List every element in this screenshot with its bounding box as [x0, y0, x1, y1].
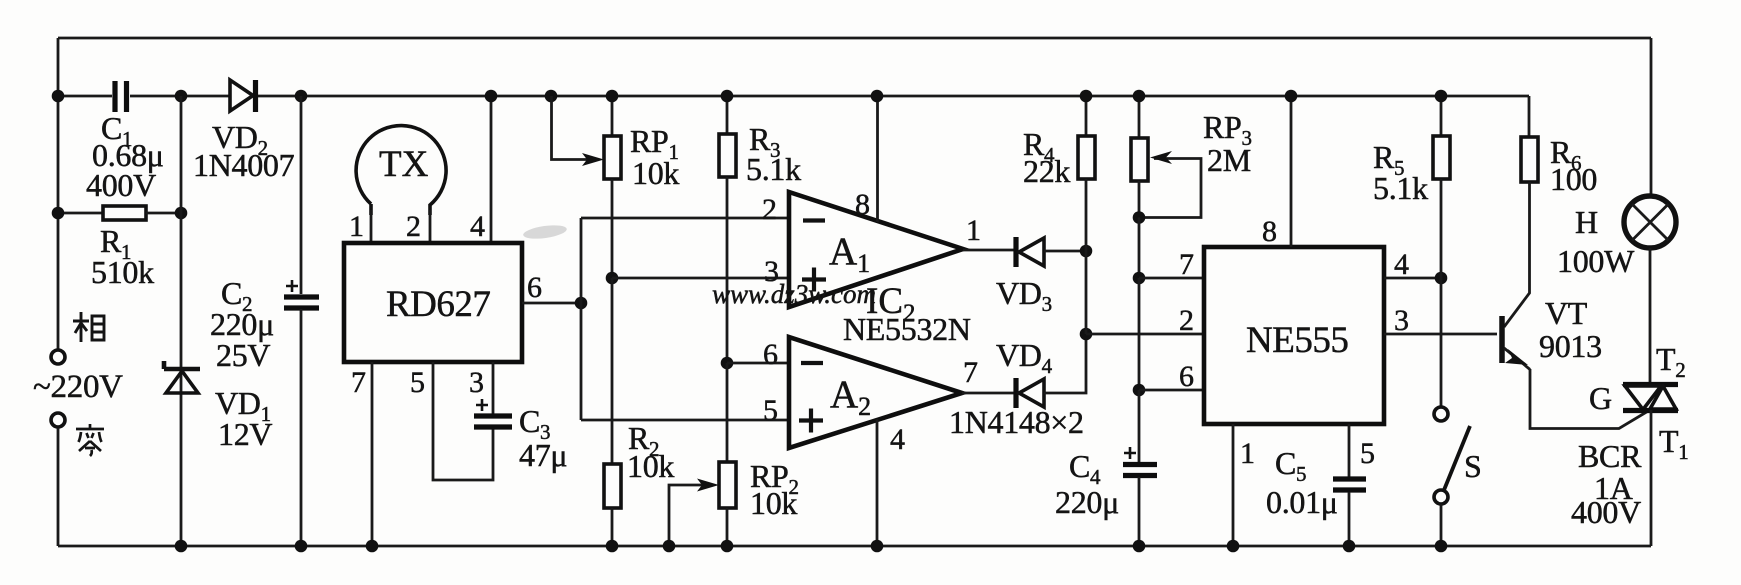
label: 零 (neutral)	[76, 424, 104, 456]
node: pin4 rail at (491,96)	[485, 90, 498, 103]
node: left border R1 at (58,213)	[52, 207, 65, 220]
node: C1-VD2 at (181,96)	[175, 90, 188, 103]
wire: junction down to R2	[611, 278, 614, 464]
svg-text:3: 3	[1394, 304, 1409, 337]
node: pin6 junction at (581,303)	[575, 297, 588, 310]
lamp H 100W	[1557, 196, 1676, 279]
wire: to NE555 pin 7	[1139, 277, 1204, 280]
svg-text:www.dz3w.com: www.dz3w.com	[712, 279, 876, 309]
wire: pin4 node down to switch	[1440, 278, 1443, 407]
label: 1N4148x2	[949, 404, 1084, 440]
node: pin4/R5 junction at (1441,278)	[1435, 272, 1448, 285]
pin 5 label RD627	[410, 366, 425, 399]
wire: RP3 line down to pin7 node	[1138, 218, 1141, 279]
capacitor C5 0.01u	[1266, 445, 1366, 520]
svg-text:10k: 10k	[632, 155, 679, 191]
wire: switch to bottom rail	[1440, 504, 1443, 546]
potentiometer RP3 2M	[1131, 96, 1252, 181]
wire: +V rail segment VD2 to R6 corner	[258, 95, 1529, 98]
pin 7 label A2 output	[963, 356, 978, 389]
wire: NE555 pin 4 to R5	[1384, 277, 1441, 280]
svg-text:S: S	[1464, 448, 1482, 484]
svg-text:510k: 510k	[91, 254, 154, 290]
pin 6 label NE555	[1179, 360, 1194, 393]
node: pin6 junction at (1139,390)	[1133, 384, 1146, 397]
node: RP3 rail at (1139,96)	[1133, 90, 1146, 103]
wire: A2 output to VD4	[962, 392, 1015, 395]
wire: pin 5 down and right to C3 negative	[433, 362, 493, 480]
pin 6 label A2	[763, 338, 778, 371]
pin 3 label A1	[764, 255, 779, 288]
node: RP3 wiper tie at (1139,214)	[1133, 211, 1146, 224]
diode VD4	[996, 337, 1053, 408]
node: pin7 junction at (1139,278)	[1133, 272, 1146, 285]
svg-text:47μ: 47μ	[519, 437, 567, 473]
op-amp A1	[789, 192, 963, 307]
resistor R4 22k	[1023, 96, 1095, 189]
svg-text:NE5532N: NE5532N	[843, 311, 971, 347]
wire: R3 bottom to A2 pin6 junction	[726, 177, 729, 363]
svg-text:10k: 10k	[627, 448, 674, 484]
svg-text:7: 7	[351, 366, 366, 399]
wire: RP3 bottom lead	[1138, 181, 1141, 218]
wire: pin 7 to bottom rail	[371, 362, 374, 546]
pin 1 label NE555	[1240, 437, 1255, 470]
pin 3 label RD627	[469, 366, 484, 399]
svg-text:100W: 100W	[1557, 243, 1635, 279]
node: pin8 rail at (1291,96)	[1285, 90, 1298, 103]
op-amp A2	[789, 337, 962, 448]
svg-text:1N4148×2: 1N4148×2	[949, 404, 1084, 440]
wire: pin 6 output of RD627	[522, 302, 581, 305]
node: pin4 bottom rail at (877,546)	[871, 540, 884, 553]
svg-text:NE555: NE555	[1246, 320, 1348, 361]
svg-text:220μ: 220μ	[1055, 484, 1119, 520]
svg-text:2: 2	[406, 210, 421, 243]
pin 2 label A1	[762, 193, 777, 226]
IC RD627	[344, 243, 522, 362]
wire: to NE555 pin 6	[1139, 389, 1204, 392]
node: R5 rail at (1441,96)	[1435, 90, 1448, 103]
label: IC2 NE5532N	[843, 281, 971, 347]
resistor R1 510k	[91, 206, 154, 290]
label: ~220V source	[33, 369, 123, 405]
wire: pin 3 to C3 positive	[492, 362, 495, 414]
pin 4 label NE555	[1394, 248, 1409, 281]
node: switch bottom rail at (1441,546)	[1435, 540, 1448, 553]
wire: left border upper segment	[57, 38, 60, 349]
wire: R2 to bottom rail	[611, 508, 614, 546]
capacitor C2 220u 25V	[210, 275, 319, 373]
wire: RP2 wiper from bottom rail with arrow	[669, 479, 719, 547]
wire: NE555 pin 1 to bottom rail	[1232, 424, 1235, 546]
watermark www.dz3w.com	[712, 279, 876, 309]
node: C2 bottom rail at (301,546)	[295, 540, 308, 553]
node: pin8 rail at (877,96)	[871, 90, 884, 103]
wire: A2 pin 4 to bottom rail	[876, 419, 879, 546]
svg-text:1: 1	[966, 214, 981, 247]
svg-text:5: 5	[763, 394, 778, 427]
wire: triac T1 to bottom rail	[1650, 410, 1653, 546]
capacitor C4 220u	[1055, 447, 1157, 520]
pin 5 label A2	[763, 394, 778, 427]
resistor R3 5.1k	[719, 96, 801, 187]
svg-text:5: 5	[410, 366, 425, 399]
capacitor C1	[86, 81, 164, 203]
potentiometer RP1 10k	[604, 96, 679, 191]
wire: NE555 pin 3 to VT base	[1384, 333, 1497, 336]
node: VD1 bottom rail at (181,546)	[175, 540, 188, 553]
wire: lamp feed from top border	[1650, 38, 1653, 196]
switch S	[1434, 407, 1482, 504]
wire: junction down to RP2	[726, 363, 729, 462]
wire: lamp to triac T2	[1649, 248, 1652, 383]
svg-text:BCR: BCR	[1578, 438, 1642, 474]
node: rail-C1 left at (58,96)	[52, 90, 65, 103]
node: VD4 summing at (1086,334)	[1080, 328, 1093, 341]
node: junction RP1/R2/pin3 at (612,278)	[606, 272, 619, 285]
svg-text:9013: 9013	[1539, 328, 1602, 364]
node: pin1 bottom rail at (1233,546)	[1227, 540, 1240, 553]
svg-text:7: 7	[1179, 248, 1194, 281]
node: C4 bottom rail at (1139,546)	[1133, 540, 1146, 553]
resistor R6 100	[1521, 96, 1597, 197]
pin 5 label NE555	[1360, 437, 1375, 470]
wire: to A2 inverting input pin 6	[727, 362, 789, 365]
svg-text:4: 4	[890, 423, 905, 456]
wire: R1 right lead	[146, 212, 181, 215]
pin 1 label RD627	[349, 210, 364, 243]
node: pin7 bottom rail at (372,546)	[366, 540, 379, 553]
svg-text:4: 4	[1394, 248, 1409, 281]
node: C5 bottom rail at (1349,546)	[1343, 540, 1356, 553]
pin 8 label A1	[855, 188, 870, 221]
pin 8 label NE555	[1262, 215, 1277, 248]
node: R3 rail at (727,96)	[721, 90, 734, 103]
pin 6 label RD627	[527, 271, 542, 304]
resistor R2 10k	[604, 420, 674, 508]
svg-text:2: 2	[1179, 304, 1194, 337]
svg-text:25V: 25V	[216, 337, 270, 373]
pin 7 label RD627	[351, 366, 366, 399]
node: R1 to VD1 branch at (181,213)	[175, 207, 188, 220]
node: RP2 wiper rail at (669,546)	[663, 540, 676, 553]
wire: C4 to bottom rail	[1138, 477, 1141, 546]
wire: RP2 to bottom rail	[726, 508, 729, 546]
wire: +V rail segment left	[58, 95, 112, 98]
svg-text:G: G	[1589, 380, 1612, 416]
wire: summing node to NE555 pin 2	[1086, 333, 1204, 336]
pin 1 label A1 output	[966, 214, 981, 247]
wire: RP1 bottom to A1 pin3 junction	[611, 179, 614, 278]
resistor R5 5.1k	[1373, 96, 1450, 206]
wire: A1 pin 8 to +V rail	[876, 96, 879, 222]
svg-text:2: 2	[762, 193, 777, 226]
wire: TX leg pin 1	[370, 210, 373, 243]
IC NE555	[1204, 247, 1384, 424]
wire: R1 left lead	[58, 212, 103, 215]
wire: R4 bottom through summing nodes	[1085, 179, 1088, 334]
smudge artifact	[522, 223, 567, 241]
wire: bottom rail	[58, 545, 1651, 548]
wire: C2 bottom lead	[300, 309, 303, 546]
wire: to A1 non-inverting input pin 3	[612, 277, 790, 280]
pin 7 label NE555	[1179, 248, 1194, 281]
terminal: phase input circle	[51, 350, 65, 364]
microphone TX	[356, 126, 446, 215]
wire: A1 output to VD3	[963, 249, 1015, 252]
node: R4 rail at (1086,96)	[1080, 90, 1093, 103]
svg-text:1N4007: 1N4007	[193, 147, 295, 183]
node: RP2 bottom rail at (727,546)	[721, 540, 734, 553]
pin 3 label NE555	[1394, 304, 1409, 337]
svg-text:6: 6	[763, 338, 778, 371]
wire: RP3 wiper loop with arrow	[1139, 151, 1201, 218]
wire: C2 top lead	[300, 96, 303, 294]
svg-text:12V: 12V	[218, 416, 272, 452]
potentiometer RP2 10k	[719, 458, 799, 521]
wire: NE555 pin 5 to C5	[1348, 424, 1351, 477]
pin 4 label A2	[890, 423, 905, 456]
wire: pin 4 to +V rail	[490, 96, 493, 243]
svg-text:10k: 10k	[750, 485, 797, 521]
svg-text:22k: 22k	[1023, 153, 1070, 189]
node: VD3 summing at (1086,251)	[1080, 245, 1093, 258]
svg-text:2M: 2M	[1207, 142, 1251, 178]
wire: riser from pin6 junction to A1 pin2 and A2 pin5	[580, 218, 583, 420]
svg-text:0.01μ: 0.01μ	[1266, 484, 1338, 520]
svg-text:VT: VT	[1545, 295, 1588, 331]
wire: down to C4	[1138, 390, 1141, 462]
wire: to A2 non-inverting input pin 5	[581, 419, 789, 422]
wire: branch x=181 from rail to zener	[180, 96, 183, 546]
svg-text:400V: 400V	[1571, 494, 1641, 530]
svg-text:1: 1	[1240, 437, 1255, 470]
label: 相 (phase)	[73, 312, 104, 342]
svg-text:5.1k: 5.1k	[746, 151, 801, 187]
svg-text:8: 8	[855, 188, 870, 221]
svg-text:5.1k: 5.1k	[1373, 170, 1428, 206]
wire: VD3 to summing node	[1044, 250, 1086, 253]
terminal: neutral input circle	[51, 413, 65, 427]
diode VD3	[996, 237, 1052, 316]
wire: to A1 inverting input pin 2	[581, 217, 790, 220]
wire: VT emitter down and right to triac gate	[1530, 369, 1649, 429]
svg-text:400V: 400V	[86, 167, 156, 203]
svg-text:8: 8	[1262, 215, 1277, 248]
wire: down to pin6 node	[1138, 278, 1141, 390]
wire: RP1 wiper from rail with arrow	[552, 96, 605, 166]
svg-text:7: 7	[963, 356, 978, 389]
node: junction R3/RP2/pin6 at (727,363)	[721, 357, 734, 370]
zener diode VD1 12V	[164, 361, 272, 452]
svg-text:TX: TX	[379, 144, 429, 185]
svg-text:RD627: RD627	[386, 284, 490, 325]
svg-text:1: 1	[349, 210, 364, 243]
node: R2 bottom rail at (612,546)	[606, 540, 619, 553]
wire: R5 bottom to pin4 node	[1440, 179, 1443, 278]
wire: top border rail	[58, 37, 1651, 40]
wire: NE555 pin 8 to +V rail	[1290, 96, 1293, 247]
pin 2 label RD627	[406, 210, 421, 243]
wire: C5 to bottom rail	[1348, 492, 1351, 546]
wire: TX leg pin 2	[429, 210, 432, 243]
node: RP1 rail at (612,96)	[606, 90, 619, 103]
transistor VT 9013	[1502, 295, 1602, 370]
node: RP1 wiper rail tap at (551,96)	[545, 90, 558, 103]
triac BCR 1A 400V	[1571, 341, 1688, 530]
pin 2 label NE555	[1179, 304, 1194, 337]
svg-text:4: 4	[470, 210, 485, 243]
svg-text:3: 3	[469, 366, 484, 399]
wire: R6 bottom to VT collector	[1504, 182, 1530, 327]
wire: VD4 up to summing node	[1044, 334, 1086, 393]
node: VD2 cathode rail at (301,96)	[295, 90, 308, 103]
svg-text:6: 6	[527, 271, 542, 304]
svg-text:~220V: ~220V	[33, 369, 123, 405]
svg-text:H: H	[1575, 204, 1598, 240]
wire: +V rail segment C1 to VD2	[130, 95, 230, 98]
pin 4 label RD627	[470, 210, 485, 243]
wire: left border lower segment	[57, 428, 60, 546]
svg-text:6: 6	[1179, 360, 1194, 393]
svg-text:5: 5	[1360, 437, 1375, 470]
diode VD2 1N4007	[193, 80, 295, 183]
capacitor C3 47u	[474, 399, 567, 473]
svg-text:100: 100	[1550, 161, 1597, 197]
